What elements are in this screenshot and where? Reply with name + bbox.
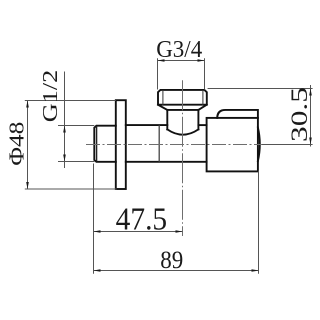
svg-text:47.5: 47.5 [116,200,168,236]
30.5 extension lines [208,89,313,145]
housing end bulge [258,128,260,162]
svg-text:Φ48: Φ48 [4,122,28,166]
arrow 89 right [252,269,259,272]
svg-text:30.5: 30.5 [287,87,312,142]
cone transition under nut [158,105,207,110]
svg-text:G1/2: G1/2 [38,70,62,123]
centerline vertical [182,80,184,236]
arrow 47.5 right [176,230,183,233]
arrow 89 left [94,269,101,272]
arrow phi48 top [26,101,29,108]
89 right extension line [258,171,260,274]
G1/2 extension lines [58,126,94,162]
svg-text:89: 89 [160,247,183,274]
arrow G3/4 left [158,59,165,62]
neck left edge [166,110,168,129]
phi48 dimension line [27,101,29,190]
housing cap [217,110,258,118]
neck-body intersection arc [167,129,198,134]
arrow G3/4 right [198,59,205,62]
valve body top edge right segment [198,124,206,126]
nut facet line left [162,90,164,105]
phi48 extension lines [25,101,117,190]
centerline horizontal [86,144,267,146]
neck right edge [197,110,199,129]
arrow G1/2 bottom [63,155,66,162]
G3/4 extension lines [158,58,205,89]
G1/2 dimension line [64,72,66,169]
svg-text:G3/4: G3/4 [156,37,202,63]
wall flange plate [116,100,126,189]
pipe thread chamfer line [96,126,98,162]
arrow 47.5 left [94,230,101,233]
valve body top edge left segment [126,124,168,126]
inlet pipe G1/2 outline [94,126,116,162]
arrow 30.5 bottom [309,138,312,145]
47.5 dimension line [94,231,183,233]
valve body bottom edge [126,161,207,163]
89 dimension line [94,270,259,272]
handle housing block [207,118,258,171]
nut facet line right [202,90,204,105]
G3/4 dimension line [158,60,205,62]
body seam [158,125,160,162]
arrow 30.5 top [309,89,312,96]
arrow phi48 bottom [26,182,29,189]
nut G3/4 [158,90,207,105]
arrow G1/2 top [63,126,66,133]
47.5/89 left extension line [93,164,95,274]
30.5 dimension line [310,85,312,147]
